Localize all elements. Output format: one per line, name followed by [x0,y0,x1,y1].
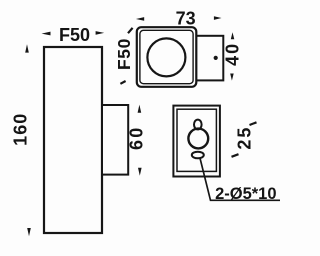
dimension F50 top right arrow [96,31,105,35]
svg-text:40: 40 [222,42,242,66]
dimension 40 bottom arrow [230,74,234,81]
svg-text:F50: F50 [114,38,134,70]
keyhole slot bottom ellipse [192,152,204,159]
dimension 25 top tick [250,122,257,125]
svg-text:2-Ø5*10: 2-Ø5*10 [215,185,276,203]
svg-text:25: 25 [235,126,255,150]
lamp body side-view rectangle [44,47,102,233]
keyhole slot top oval [194,120,202,130]
dimension 40 top arrow [231,32,235,39]
leader line to slot label [200,157,280,200]
svg-text:60: 60 [127,126,147,150]
lamp lens circle [147,38,185,76]
dimension F50 top left arrow [42,32,51,36]
mounting plate inner rectangle [177,109,216,171]
lamp head front view outer square [137,27,197,87]
dimension 160 top arrow [25,44,29,52]
dimension F50 vertical top tick [128,28,133,33]
svg-text:73: 73 [176,9,196,29]
dimension 160 bottom arrow [27,228,31,236]
keyhole big circle [188,129,208,149]
back-box side profile notch [102,105,128,175]
dimension F50 vertical bottom tick [120,81,125,84]
svg-text:F50: F50 [59,25,90,45]
dimension 73 left arrow [136,17,144,21]
rear junction box (back of head, side) [195,36,223,81]
dimension 60 top arrow [138,105,142,113]
dimension 60 bottom arrow [138,168,142,176]
mounting plate outer rectangle [173,106,220,177]
lamp head front view inner square [140,30,193,83]
dimension 73 right arrow [214,16,222,20]
dimension 25 bottom tick [232,154,239,157]
screw dot on junction box [214,56,218,60]
svg-text:160: 160 [11,113,31,146]
